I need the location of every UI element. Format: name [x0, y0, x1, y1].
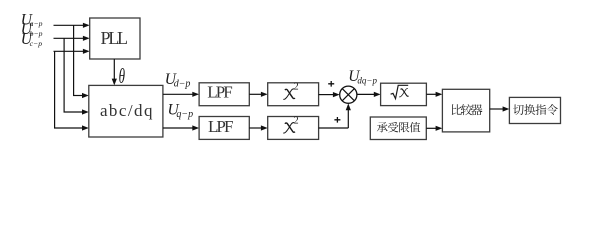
summing junction (circle with X) — [340, 86, 357, 103]
wire branch Ua into abc/dq — [73, 95, 83, 97]
svg-text:LPF: LPF — [207, 82, 233, 101]
block switch command 切换指令 — [509, 97, 560, 123]
x squared glyph bottom — [283, 123, 295, 133]
wire branch Ub into abc/dq — [64, 111, 84, 113]
wire abc/dq to LPF2 — [163, 127, 193, 129]
wire x^2 bottom to summer corner — [319, 127, 349, 129]
text 切换指令 — [513, 104, 558, 115]
svg-text:d−p: d−p — [174, 79, 191, 90]
wire tolerance to comparator — [426, 127, 436, 129]
wire comparator to switch command — [490, 108, 504, 110]
svg-text:θ: θ — [119, 64, 125, 88]
svg-text:2: 2 — [294, 115, 299, 126]
wire abc/dq to LPF1 — [163, 93, 193, 95]
block x-squared bottom — [268, 117, 319, 140]
block sqrt(x) — [381, 83, 427, 105]
wire LPF1 to x^2 top — [249, 93, 262, 95]
block x-squared top — [268, 83, 319, 106]
wire Ub-p to PLL — [54, 37, 84, 39]
wire branch Ua vertical — [73, 25, 75, 95]
svg-text:q−p: q−p — [176, 109, 193, 120]
block comparator 比较器 — [442, 89, 489, 132]
wire branch Uc into abc/dq — [54, 127, 83, 129]
wire x^2 top to summer — [319, 94, 334, 96]
wire branch Uc vertical — [54, 51, 56, 128]
svg-text:PLL: PLL — [100, 28, 128, 48]
wire Uc-p to PLL — [54, 50, 84, 52]
x squared glyph top — [283, 89, 295, 99]
svg-text:2: 2 — [294, 82, 299, 93]
wire summer bottom entry — [347, 109, 349, 128]
wire LPF2 to x^2 bottom — [249, 127, 262, 129]
block abc/dq — [89, 85, 163, 137]
block LPF1 — [199, 83, 249, 106]
node plus sign bottom — [334, 117, 340, 123]
block tolerance limit 承受限值 — [370, 117, 426, 140]
node plus sign top — [328, 81, 334, 87]
block PLL — [90, 18, 140, 59]
sqrt radical symbol — [391, 85, 409, 98]
block LPF2 — [199, 117, 249, 140]
svg-text:LPF: LPF — [208, 117, 234, 136]
svg-text:c−p: c−p — [30, 39, 43, 48]
wire theta PLL to abc/dq — [113, 59, 115, 80]
wire branch Ub vertical — [63, 38, 65, 112]
text 承受限值 — [377, 122, 420, 132]
sqrt x glyph — [399, 89, 408, 97]
text 比较器 — [452, 104, 483, 115]
wire summer to sqrt — [357, 93, 375, 95]
wire Ua-p to PLL — [54, 24, 84, 26]
svg-text:dq−p: dq−p — [357, 75, 377, 85]
wire sqrt to comparator — [426, 93, 436, 95]
